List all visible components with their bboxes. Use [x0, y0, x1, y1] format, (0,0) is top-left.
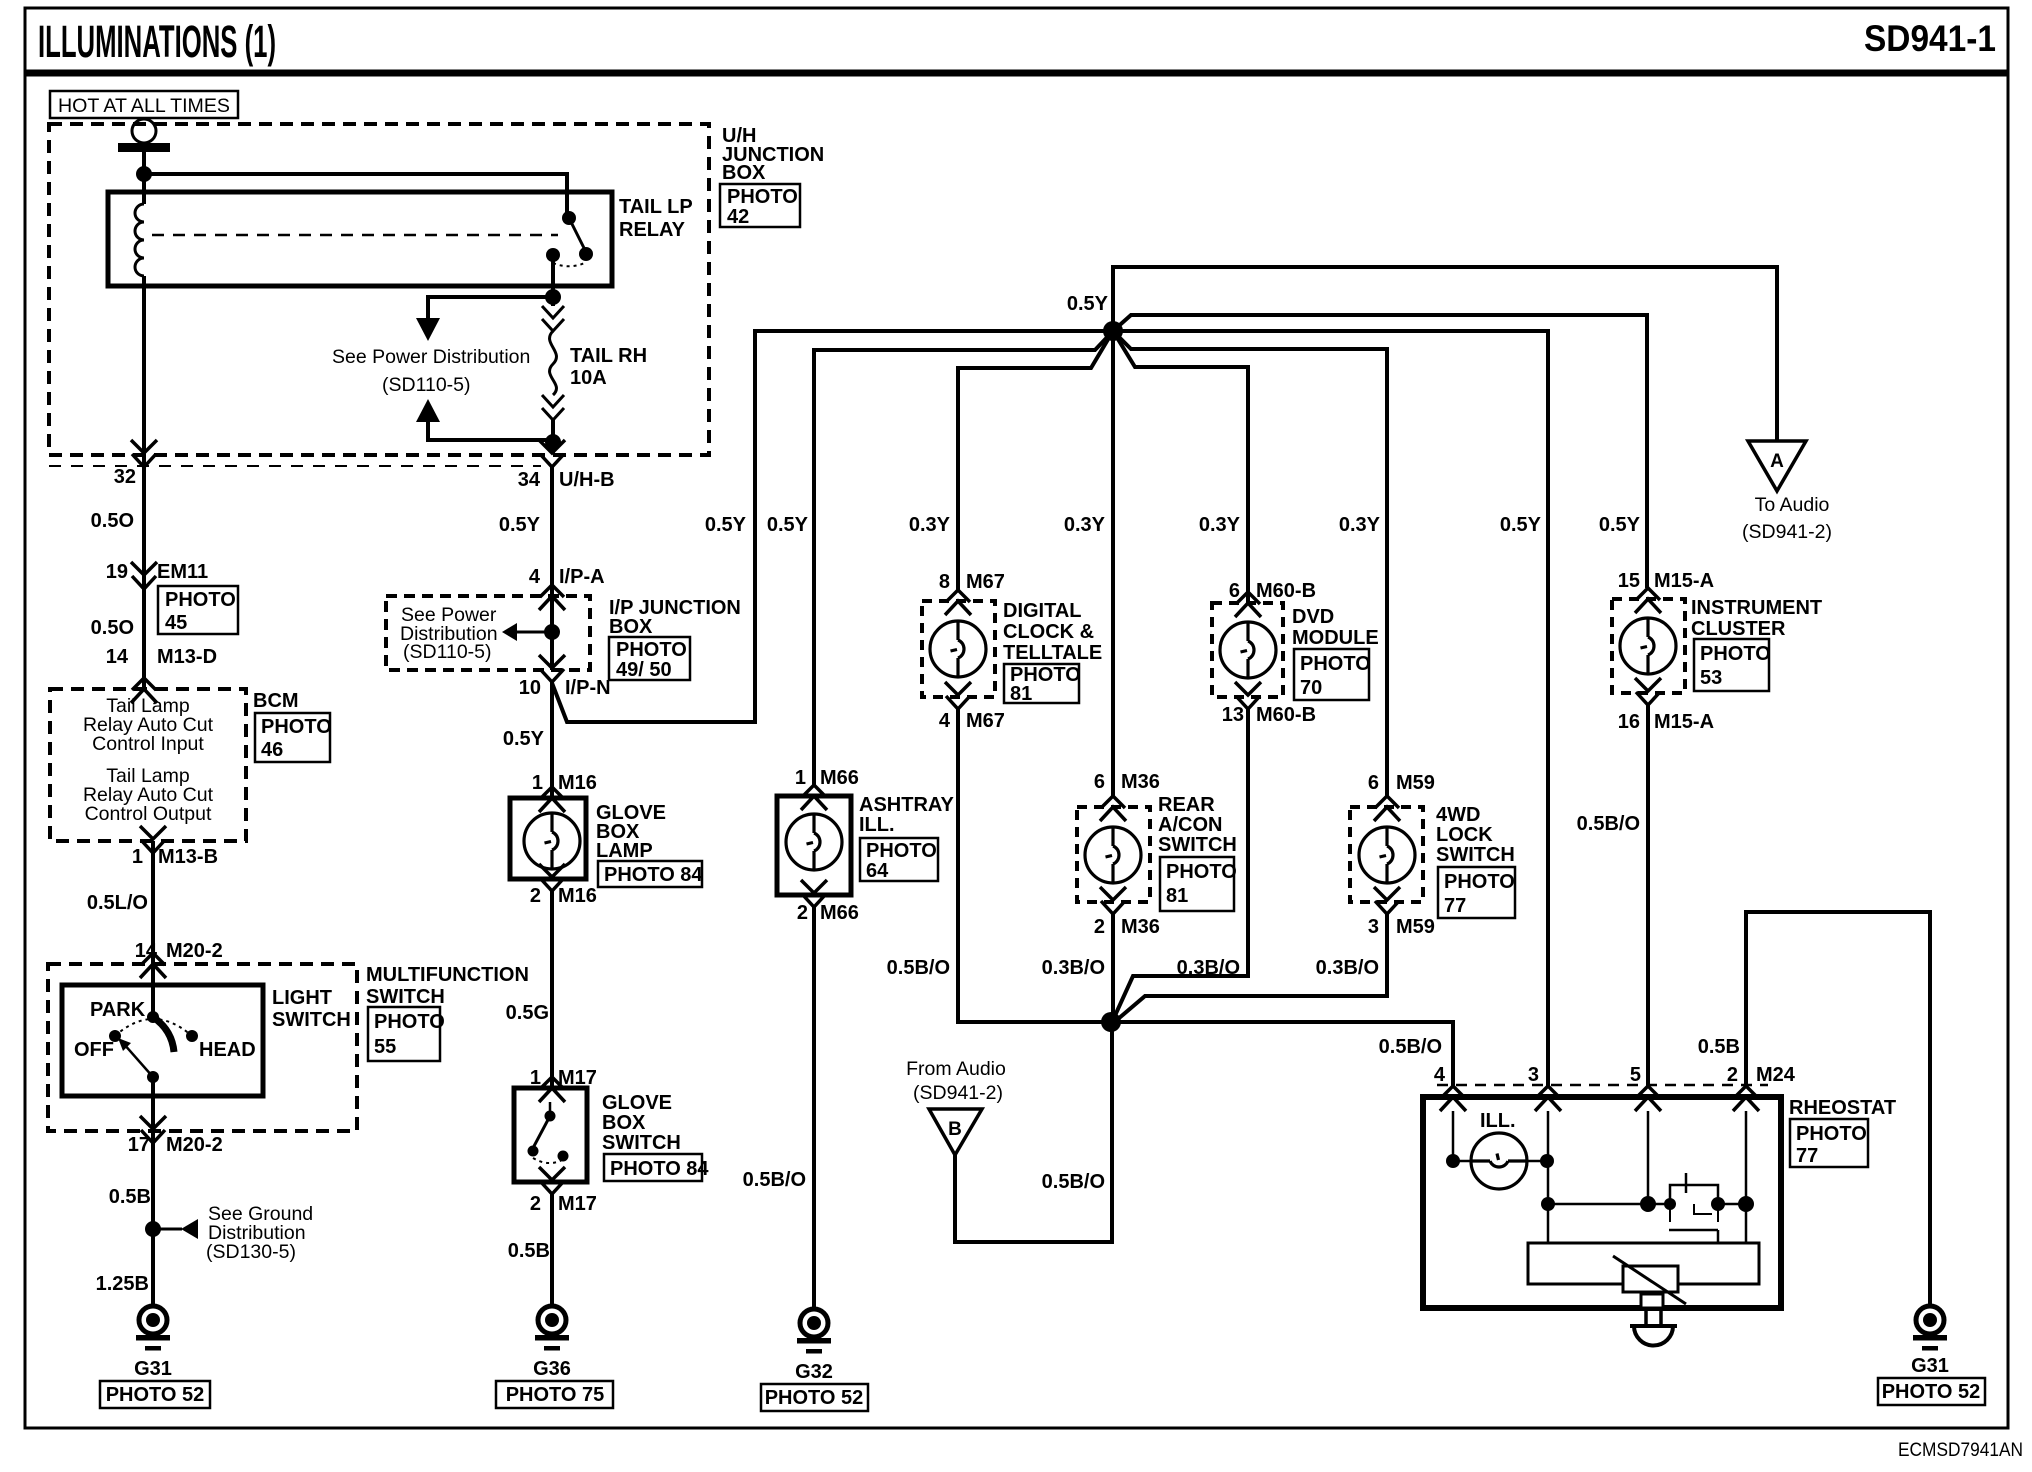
svg-text:(SD130-5): (SD130-5) [206, 1241, 296, 1263]
svg-text:LIGHT: LIGHT [272, 987, 332, 1009]
ground G31 right [1878, 1306, 1985, 1405]
svg-text:0.3B/O: 0.3B/O [1042, 957, 1105, 979]
connector 1 M16 [532, 772, 597, 812]
ground G32 [761, 1309, 868, 1411]
svg-text:To Audio: To Audio [1755, 494, 1830, 516]
svg-text:0.5Y: 0.5Y [1067, 293, 1109, 315]
relay switch contacts [546, 211, 593, 266]
svg-text:TAIL LP: TAIL LP [619, 196, 693, 218]
svg-text:32: 32 [114, 466, 136, 488]
wire from node to relay contact [144, 174, 567, 218]
svg-text:M67: M67 [966, 571, 1005, 593]
svg-text:SWITCH: SWITCH [1436, 844, 1515, 866]
svg-text:M15-A: M15-A [1654, 711, 1714, 733]
wire lamp to glove box switch [550, 891, 554, 1088]
svg-text:DVD: DVD [1292, 606, 1334, 628]
svg-text:2: 2 [530, 1193, 541, 1215]
svg-text:SD941-1: SD941-1 [1864, 18, 1996, 59]
photo 81 box (clock) [1004, 664, 1081, 705]
svg-text:6: 6 [1229, 580, 1240, 602]
svg-text:PHOTO 84: PHOTO 84 [610, 1158, 709, 1180]
rheostat ILL lamp branch [1446, 1110, 1554, 1189]
svg-text:46: 46 [261, 739, 283, 761]
svg-text:PHOTO 52: PHOTO 52 [765, 1387, 864, 1409]
svg-text:M17: M17 [558, 1193, 597, 1215]
light switch label [272, 987, 351, 1031]
dashed line remnant under U/H box [49, 465, 541, 467]
svg-text:LAMP: LAMP [596, 840, 653, 862]
svg-text:PHOTO: PHOTO [1796, 1123, 1867, 1145]
BCM internal text [83, 695, 214, 825]
multifunction switch label [366, 964, 529, 1008]
wire rear a/con to bottom bus [1111, 914, 1115, 1022]
connector 2 M17 [530, 1167, 597, 1215]
I/P junction box label [609, 597, 741, 638]
svg-text:4: 4 [939, 710, 951, 732]
see power distribution text in I/P box [400, 604, 498, 663]
svg-text:PHOTO 52: PHOTO 52 [1882, 1381, 1981, 1403]
svg-text:M36: M36 [1121, 771, 1160, 793]
svg-text:B: B [948, 1119, 962, 1140]
svg-text:0.5B/O: 0.5B/O [1042, 1171, 1105, 1193]
svg-text:ECMSD7941AN: ECMSD7941AN [1898, 1440, 2023, 1461]
digital clock label [1003, 600, 1102, 664]
rheostat pin labels [1434, 1064, 1796, 1086]
svg-text:49/ 50: 49/ 50 [616, 659, 672, 681]
wire from fusible link to relay coil [142, 152, 146, 204]
svg-text:0.5G: 0.5G [506, 1002, 549, 1024]
svg-text:2: 2 [797, 902, 808, 924]
svg-text:0.3Y: 0.3Y [1199, 514, 1241, 536]
relay label [619, 196, 693, 241]
wire light switch pivot to ground G31 [151, 1077, 155, 1306]
connector 19 EM11 [106, 561, 208, 589]
svg-text:M60-B: M60-B [1256, 580, 1316, 602]
connector 1 M17 [530, 1067, 597, 1102]
svg-text:4WD: 4WD [1436, 804, 1480, 826]
svg-text:14: 14 [106, 646, 129, 668]
wire glove box switch to ground G36 [550, 1194, 554, 1306]
see power distribution branch (top) [332, 297, 553, 440]
svg-text:0.5Y: 0.5Y [767, 514, 809, 536]
wire junction to rheostat pin 3 [1113, 331, 1548, 1086]
connector 4 I/P-A [529, 566, 605, 610]
svg-text:INSTRUMENT: INSTRUMENT [1691, 597, 1822, 619]
photo 55 box [368, 1007, 445, 1061]
svg-text:M13-D: M13-D [157, 646, 217, 668]
ashtray illumination [777, 767, 859, 924]
svg-text:0.5B: 0.5B [109, 1186, 151, 1208]
svg-text:3: 3 [1368, 916, 1379, 938]
photo 84 box (lamp) [598, 861, 703, 887]
U/H junction box label [722, 125, 824, 184]
svg-text:ASHTRAY: ASHTRAY [859, 794, 954, 816]
svg-text:PARK: PARK [90, 999, 146, 1021]
light switch contacts [109, 1011, 198, 1083]
connector 17 M20-2 [128, 1116, 223, 1156]
svg-text:From Audio: From Audio [906, 1058, 1006, 1080]
svg-text:M16: M16 [558, 885, 597, 907]
svg-text:G31: G31 [1911, 1355, 1949, 1377]
wire BCM to light switch [151, 841, 155, 1017]
svg-text:55: 55 [374, 1036, 396, 1058]
relay coil [135, 204, 144, 276]
svg-text:77: 77 [1796, 1145, 1818, 1167]
svg-text:0.5B/O: 0.5B/O [743, 1169, 806, 1191]
svg-text:PHOTO 75: PHOTO 75 [506, 1384, 605, 1406]
bottom bus junction dot [1101, 1012, 1121, 1032]
I/P junction box (dashed) [386, 596, 590, 670]
svg-text:0.5Y: 0.5Y [1599, 514, 1641, 536]
svg-text:See Power Distribution: See Power Distribution [332, 346, 530, 368]
svg-text:M67: M67 [966, 710, 1005, 732]
instrument cluster [1612, 570, 1714, 733]
node dot I/P [544, 624, 560, 640]
svg-text:0.3B/O: 0.3B/O [1316, 957, 1379, 979]
svg-text:ILL.: ILL. [859, 814, 895, 836]
svg-text:64: 64 [866, 860, 889, 882]
svg-text:(SD110-5): (SD110-5) [382, 374, 471, 396]
connector 14 M20-2 [135, 940, 223, 978]
svg-text:PHOTO: PHOTO [374, 1011, 445, 1033]
rheostat connectors [1440, 1086, 1759, 1111]
svg-text:I/P-N: I/P-N [565, 677, 611, 699]
svg-text:HEAD: HEAD [199, 1039, 256, 1061]
DVD module label [1292, 606, 1379, 649]
connector 1 M13-B [132, 826, 218, 868]
svg-text:M20-2: M20-2 [166, 940, 223, 962]
wire I/P-N diagonal to riser [552, 331, 1113, 722]
photo 45 box [158, 586, 238, 634]
connector 34 U/H-B [518, 440, 615, 491]
svg-text:10: 10 [519, 677, 541, 699]
photo 42 box [720, 184, 800, 228]
B triangle From Audio [906, 1058, 1006, 1155]
rheostat transistor symbol [1669, 1173, 1718, 1243]
rheostat internal node row [1541, 1111, 1754, 1243]
relay dashed link line [152, 234, 558, 237]
svg-text:0.5O: 0.5O [91, 510, 134, 532]
svg-text:(SD110-5): (SD110-5) [403, 641, 492, 663]
photo 77 box (4WD) [1438, 867, 1515, 918]
svg-text:PHOTO: PHOTO [165, 589, 236, 611]
photo 70 box [1294, 649, 1371, 700]
photo 81 box (rear a/con) [1160, 857, 1237, 911]
DVD module [1212, 580, 1316, 726]
svg-text:PHOTO 52: PHOTO 52 [106, 1384, 205, 1406]
wire junction to digital clock [958, 331, 1113, 590]
glove box switch [514, 1088, 587, 1182]
svg-text:BCM: BCM [253, 690, 299, 712]
rheostat knob [1630, 1294, 1677, 1346]
wire junction to instrument cluster [1113, 315, 1647, 588]
svg-text:0.5B/O: 0.5B/O [887, 957, 950, 979]
svg-text:0.5B/O: 0.5B/O [1577, 813, 1640, 835]
svg-text:M59: M59 [1396, 772, 1435, 794]
svg-text:ILLUMINATIONS (1): ILLUMINATIONS (1) [38, 16, 276, 67]
svg-text:PHOTO 84: PHOTO 84 [604, 864, 703, 886]
svg-text:0.5B: 0.5B [1698, 1036, 1740, 1058]
svg-text:77: 77 [1444, 895, 1466, 917]
title separator line [25, 70, 2008, 77]
photo 84 box (switch) [604, 1154, 709, 1181]
rheostat box [1423, 1097, 1781, 1308]
svg-text:6: 6 [1368, 772, 1379, 794]
svg-text:SWITCH: SWITCH [366, 986, 445, 1008]
wire clock to bottom bus [958, 709, 1111, 1022]
wire bus down to B triangle [955, 1022, 1112, 1242]
relay TAIL LP RELAY box [108, 192, 612, 286]
wire relay output down [551, 255, 555, 306]
svg-text:(SD941-2): (SD941-2) [1742, 521, 1832, 543]
ground G36 [496, 1306, 613, 1408]
U/H junction box (dashed) [49, 124, 709, 455]
svg-text:15: 15 [1618, 570, 1640, 592]
svg-text:1.25B: 1.25B [96, 1273, 149, 1295]
connector 32 [114, 440, 157, 488]
svg-text:2: 2 [530, 885, 541, 907]
rear a/con label [1158, 794, 1237, 856]
svg-text:G36: G36 [533, 1358, 571, 1380]
rheostat variable resistor box with slash [1613, 1256, 1686, 1304]
svg-text:SWITCH: SWITCH [1158, 834, 1237, 856]
HOT AT ALL TIMES box [50, 91, 238, 118]
svg-text:OFF: OFF [74, 1039, 114, 1061]
svg-text:HOT AT ALL TIMES: HOT AT ALL TIMES [58, 95, 230, 117]
svg-text:1: 1 [132, 846, 143, 868]
connector 14 M13-D [106, 646, 217, 703]
wire I/P-N to glove box lamp [550, 682, 554, 798]
glove box lamp [510, 798, 586, 879]
wire bus to rheostat pin 4 [1111, 1022, 1453, 1086]
svg-text:M13-B: M13-B [158, 846, 218, 868]
svg-text:19: 19 [106, 561, 128, 583]
svg-text:G32: G32 [795, 1361, 833, 1383]
svg-text:1: 1 [795, 767, 806, 789]
svg-text:81: 81 [1010, 683, 1032, 705]
svg-text:I/P-A: I/P-A [559, 566, 605, 588]
BCM box (dashed) [50, 689, 246, 841]
digital clock and telltale [922, 571, 1005, 732]
arrow to I/P node [502, 623, 552, 641]
svg-text:M59: M59 [1396, 916, 1435, 938]
svg-text:M15-A: M15-A [1654, 570, 1714, 592]
svg-text:70: 70 [1300, 677, 1322, 699]
svg-text:81: 81 [1166, 885, 1188, 907]
A triangle To Audio [1742, 441, 1832, 543]
svg-text:PHOTO: PHOTO [1444, 871, 1515, 893]
light switch box [62, 985, 263, 1096]
svg-text:U/H-B: U/H-B [559, 469, 615, 491]
wire 4WD to bottom bus [1118, 914, 1387, 1019]
svg-text:PHOTO: PHOTO [1700, 643, 1771, 665]
svg-text:8: 8 [939, 571, 950, 593]
svg-text:(SD941-2): (SD941-2) [913, 1082, 1003, 1104]
wire ashtray to ground G32 [812, 907, 816, 1309]
svg-text:2: 2 [1727, 1064, 1738, 1086]
rheostat resistor block [1528, 1243, 1759, 1284]
svg-text:PHOTO: PHOTO [1300, 653, 1371, 675]
wire junction down to rear a/con [1111, 331, 1115, 796]
svg-text:4: 4 [1434, 1064, 1446, 1086]
svg-text:Control Input: Control Input [92, 733, 204, 755]
svg-text:SWITCH: SWITCH [602, 1132, 681, 1154]
svg-text:6: 6 [1094, 771, 1105, 793]
svg-text:0.5O: 0.5O [91, 617, 134, 639]
svg-text:ILL.: ILL. [1480, 1110, 1516, 1132]
node dot below relay [545, 289, 561, 305]
svg-text:0.5B: 0.5B [508, 1240, 550, 1262]
wire cluster to rheostat pin 5 [1646, 705, 1650, 1086]
svg-text:45: 45 [165, 612, 187, 634]
svg-text:DIGITAL: DIGITAL [1003, 600, 1082, 622]
svg-text:PHOTO: PHOTO [727, 186, 798, 208]
svg-text:0.3Y: 0.3Y [1064, 514, 1106, 536]
fuse TAIL RH 10A [542, 306, 564, 420]
4WD lock switch [1350, 772, 1435, 938]
wire junction to 4WD lock switch [1113, 331, 1387, 796]
svg-text:0.5Y: 0.5Y [499, 514, 541, 536]
wire rheostat pin 2 to ground G31 right [1746, 912, 1930, 1306]
svg-text:M66: M66 [820, 902, 859, 924]
svg-text:GLOVE: GLOVE [602, 1092, 672, 1114]
wire fuse to connector 34 [551, 420, 555, 453]
svg-text:42: 42 [727, 206, 749, 228]
svg-text:4: 4 [529, 566, 541, 588]
svg-text:CLOCK &: CLOCK & [1003, 621, 1094, 643]
svg-text:G31: G31 [134, 1358, 172, 1380]
svg-text:16: 16 [1618, 711, 1640, 733]
svg-text:34: 34 [518, 469, 541, 491]
svg-text:10A: 10A [570, 367, 607, 389]
glove box lamp label [596, 802, 666, 862]
wire DVD to bottom bus [1113, 709, 1248, 1020]
ashtray label [859, 794, 954, 836]
svg-text:PHOTO: PHOTO [261, 716, 332, 738]
svg-text:MULTIFUNCTION: MULTIFUNCTION [366, 964, 529, 986]
photo 46 box [255, 713, 332, 762]
connector 2 M16 [530, 864, 597, 907]
svg-text:BOX: BOX [602, 1112, 646, 1134]
svg-text:TAIL RH: TAIL RH [570, 345, 647, 367]
svg-text:M66: M66 [820, 767, 859, 789]
svg-text:PHOTO: PHOTO [616, 639, 687, 661]
node dot below fuse [545, 434, 561, 450]
svg-text:BOX: BOX [609, 616, 653, 638]
svg-text:RELAY: RELAY [619, 219, 686, 241]
svg-text:53: 53 [1700, 667, 1722, 689]
svg-text:0.5L/O: 0.5L/O [87, 892, 148, 914]
photo 49/50 box [609, 637, 690, 681]
rheostat pin 3 internal wire [1547, 1111, 1550, 1243]
svg-text:1: 1 [532, 772, 543, 794]
svg-text:0.3Y: 0.3Y [909, 514, 951, 536]
svg-text:M60-B: M60-B [1256, 704, 1316, 726]
rear a/con switch [1077, 771, 1160, 938]
photo 77 box (rheostat) [1790, 1119, 1868, 1167]
fusible link symbol at top [118, 119, 170, 152]
svg-text:MODULE: MODULE [1292, 627, 1379, 649]
wire junction up to A triangle [1113, 267, 1777, 441]
connector 10 I/P-N [519, 655, 611, 699]
svg-text:PHOTO: PHOTO [1166, 861, 1237, 883]
rheostat connector dashed line [1437, 1084, 1768, 1087]
svg-text:RHEOSTAT: RHEOSTAT [1789, 1097, 1896, 1119]
wire junction to ashtray [814, 331, 1113, 785]
svg-text:REAR: REAR [1158, 794, 1215, 816]
svg-text:3: 3 [1528, 1064, 1539, 1086]
svg-text:0.5Y: 0.5Y [1500, 514, 1542, 536]
fuse label [570, 345, 647, 389]
4WD lock label [1436, 804, 1515, 866]
svg-text:M16: M16 [558, 772, 597, 794]
junction node dot [1103, 321, 1123, 341]
svg-text:0.3Y: 0.3Y [1339, 514, 1381, 536]
photo 64 box [860, 838, 938, 882]
svg-text:Control Output: Control Output [85, 803, 212, 825]
svg-text:13: 13 [1222, 704, 1244, 726]
light switch position labels [74, 999, 256, 1061]
svg-text:LOCK: LOCK [1436, 824, 1493, 846]
multifunction switch box (dashed) [48, 964, 357, 1131]
svg-text:BOX: BOX [722, 162, 766, 184]
svg-text:2: 2 [1094, 916, 1105, 938]
wire left column coil to BCM [142, 276, 146, 689]
svg-text:17: 17 [128, 1134, 150, 1156]
svg-text:0.5B/O: 0.5B/O [1379, 1036, 1442, 1058]
svg-text:A: A [1770, 451, 1784, 472]
photo 53 box [1694, 639, 1771, 691]
svg-text:5: 5 [1630, 1064, 1641, 1086]
wire junction to DVD module [1113, 331, 1248, 603]
see ground distribution branch [145, 1203, 313, 1263]
svg-text:SWITCH: SWITCH [272, 1009, 351, 1031]
svg-text:CLUSTER: CLUSTER [1691, 618, 1786, 640]
svg-text:EM11: EM11 [157, 561, 208, 583]
wire conn34 to I/P-A [550, 467, 554, 596]
svg-text:PHOTO: PHOTO [866, 840, 937, 862]
svg-text:M36: M36 [1121, 916, 1160, 938]
instrument cluster label [1691, 597, 1822, 640]
svg-text:TELLTALE: TELLTALE [1003, 642, 1102, 664]
svg-text:0.3B/O: 0.3B/O [1177, 957, 1240, 979]
node dot above relay [136, 166, 152, 182]
svg-text:0.5Y: 0.5Y [705, 514, 747, 536]
glove box switch label [602, 1092, 681, 1154]
svg-text:0.5Y: 0.5Y [503, 728, 545, 750]
svg-text:M24: M24 [1756, 1064, 1796, 1086]
svg-text:A/CON: A/CON [1158, 814, 1222, 836]
svg-text:M20-2: M20-2 [166, 1134, 223, 1156]
wire inside I/P box [550, 596, 554, 670]
ground G31 left [100, 1306, 210, 1408]
